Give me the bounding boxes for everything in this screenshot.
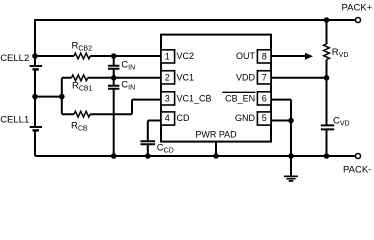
capacitor CIN2 — [108, 78, 119, 156]
svg-text:CB_EN: CB_EN — [225, 94, 255, 104]
svg-text:CD: CD — [177, 113, 190, 123]
node RVD top — [324, 17, 330, 23]
node CCD bottom — [145, 153, 151, 159]
svg-text:VDD: VDD — [236, 73, 256, 83]
svg-text:RCB1: RCB1 — [72, 81, 93, 93]
svg-text:5: 5 — [262, 113, 267, 123]
wire VC1 row — [62, 77, 161, 79]
wire mid cell node — [35, 96, 62, 98]
svg-text:CELL2: CELL2 — [0, 53, 29, 64]
terminal PACK+ — [355, 17, 360, 22]
IC U1 outline — [161, 35, 271, 142]
battery CELL1 — [30, 126, 42, 128]
resistor RVD — [326, 20, 328, 78]
terminal PACK- — [355, 153, 360, 158]
svg-text:4: 4 — [165, 113, 170, 123]
node CIN1 top — [111, 53, 117, 59]
capacitor CIN1 — [108, 56, 119, 78]
wire VC2 row — [35, 55, 161, 57]
svg-text:CVD: CVD — [333, 115, 350, 127]
wire bottom rail PACK- — [35, 155, 355, 157]
resistor RCB — [74, 111, 90, 117]
node RVD bottom VDD — [324, 75, 330, 81]
wire CB_EN branch — [271, 100, 291, 156]
svg-text:VC1: VC1 — [177, 73, 195, 83]
pin box 1 — [161, 50, 175, 63]
node CIN2 bottom — [111, 153, 117, 159]
svg-text:7: 7 — [262, 73, 267, 83]
pin box 4 — [161, 112, 175, 125]
pin box 3 — [161, 92, 175, 105]
svg-text:PACK-: PACK- — [343, 164, 371, 175]
svg-text:6: 6 — [262, 94, 267, 104]
pin box 8 — [257, 50, 271, 63]
pin box 6 — [257, 92, 271, 105]
node CELL2 top — [32, 53, 38, 59]
node ground rail — [288, 153, 294, 159]
pin box 2 — [161, 71, 175, 84]
svg-text:CELL1: CELL1 — [0, 114, 29, 125]
wire CD pin to CCD — [148, 121, 161, 142]
svg-text:RCB2: RCB2 — [72, 40, 93, 52]
svg-text:CIN: CIN — [121, 80, 135, 92]
node PWR PAD bottom — [213, 153, 219, 159]
overline CB_EN — [222, 91, 255, 93]
wire RCB1 branch vertical — [61, 78, 63, 114]
wire top rail PACK+ — [35, 19, 355, 21]
svg-text:RVD: RVD — [332, 47, 349, 59]
wire left battery stack vertical — [34, 19, 36, 156]
wire ground drop — [290, 156, 292, 176]
wire PWR PAD stub — [215, 142, 217, 156]
battery CELL2 — [30, 65, 42, 67]
node RCB branch — [59, 94, 65, 100]
resistor RCB1 — [72, 75, 88, 81]
svg-text:PWR PAD: PWR PAD — [195, 130, 237, 140]
node CIN junction VC1 — [111, 75, 117, 81]
wire RCB row to VC1_CB — [62, 100, 161, 115]
svg-text:RCB: RCB — [71, 121, 88, 133]
svg-text:2: 2 — [165, 73, 170, 83]
node CVD bottom — [324, 153, 330, 159]
svg-text:1: 1 — [165, 52, 170, 62]
svg-text:CIN: CIN — [121, 59, 135, 71]
capacitor CVD — [321, 78, 334, 156]
wire VDD row — [271, 77, 327, 79]
pin box 5 — [257, 112, 271, 125]
svg-text:CCD: CCD — [157, 142, 174, 154]
resistor RCB2 — [74, 53, 90, 59]
wire GND stub — [271, 120, 291, 122]
svg-text:OUT: OUT — [236, 51, 256, 61]
node mid cells — [32, 94, 38, 100]
svg-text:3: 3 — [165, 94, 170, 104]
svg-text:8: 8 — [262, 52, 267, 62]
svg-text:VC1_CB: VC1_CB — [177, 94, 212, 104]
capacitor CCD — [141, 141, 156, 156]
pin box 7 — [257, 71, 271, 84]
wire OUT arrow line — [271, 55, 306, 57]
svg-text:VC2: VC2 — [177, 51, 195, 61]
svg-text:GND: GND — [235, 113, 256, 123]
node CB_EN GND join — [288, 118, 294, 124]
arrow OUT — [305, 53, 313, 60]
svg-text:PACK+: PACK+ — [342, 3, 373, 14]
ground — [284, 176, 298, 181]
